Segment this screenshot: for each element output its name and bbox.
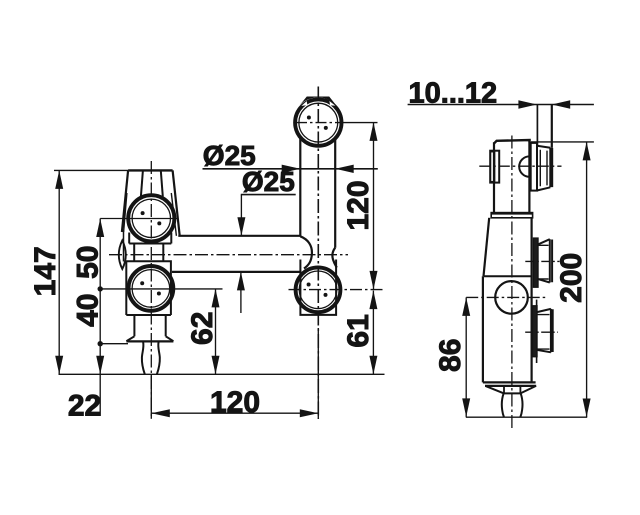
sv bottom flange stub bottom	[536, 357, 538, 363]
port C3 outer ring	[295, 99, 341, 145]
port C2 outer ring	[129, 266, 174, 311]
body right side inner	[171, 193, 176, 236]
port C2 screw dot a	[140, 281, 144, 285]
svg-text:120: 120	[342, 180, 375, 230]
dim 22 arrow bottom	[96, 356, 104, 375]
sv collar top thick	[491, 212, 532, 215]
sv body mid line	[484, 275, 532, 277]
sv nipple	[502, 393, 523, 417]
dim 200 ext top	[531, 141, 594, 143]
junction fillet left bulge	[300, 236, 312, 268]
svg-text:40: 40	[72, 294, 105, 327]
svg-text:50: 50	[72, 246, 105, 279]
dim 61 line	[372, 291, 374, 375]
svg-text:10...12: 10...12	[409, 78, 498, 110]
riser pipe right edge	[334, 138, 336, 248]
svg-text:22: 22	[68, 390, 101, 423]
dim 86 arrow bottom	[462, 398, 470, 417]
body right side outer	[173, 170, 180, 235]
dim 200 arrow top	[583, 142, 591, 161]
lower housing bottom edge	[126, 314, 171, 316]
sv pipe end circle	[495, 281, 528, 314]
outlet nut left	[133, 315, 135, 336]
dim diam25 hpipe arrow bottom	[237, 272, 245, 291]
sv bottom flange stub top	[536, 300, 538, 306]
port C3 cap notch right	[329, 101, 335, 106]
centerline body vertical	[150, 161, 152, 419]
dim diam25 hpipe arrow top	[237, 217, 245, 236]
upper housing left edge	[128, 233, 130, 244]
dim chain 50-40-22 line	[99, 219, 101, 417]
centerline horizontal pipe	[109, 254, 348, 256]
dim 147 arrow bottom	[55, 356, 63, 375]
port C3 screw dot a	[307, 116, 311, 120]
svg-text:120: 120	[210, 386, 260, 419]
port C4 housing	[300, 260, 336, 315]
sv centerline vertical	[511, 136, 513, 431]
sv centerline top port	[479, 165, 561, 167]
dim diam25 riser arrow right	[335, 165, 354, 173]
sv body left slant	[484, 218, 490, 276]
centerline port C1 horizontal	[100, 218, 178, 220]
outlet flare bottom edge	[126, 340, 173, 342]
body bonnet top edge	[128, 169, 173, 171]
sv foot right slant	[520, 386, 536, 394]
sv bottom flange cup face	[551, 309, 553, 352]
dim 120 right arrow top	[370, 122, 378, 140]
port C4 inner circle	[299, 271, 337, 309]
dim chain ext line flare	[100, 343, 128, 345]
outlet flare left chamfer	[126, 336, 134, 341]
dim 120 bottom ext left	[150, 375, 152, 419]
riser pipe left edge	[299, 138, 301, 237]
dim 147 line	[58, 170, 60, 374]
outlet nipple	[142, 342, 160, 374]
horizontal pipe top edge	[178, 235, 300, 237]
sv bottom flange bore lines	[537, 315, 550, 350]
baseline extension bottom	[59, 373, 385, 375]
dim 120 right line	[373, 122, 375, 289]
sv mid flange bore lines	[538, 245, 549, 279]
dim 50 arrow top	[96, 219, 104, 238]
svg-text:86: 86	[434, 339, 467, 372]
sv rear stub outer	[490, 151, 499, 183]
dim diam25 hpipe leader	[240, 195, 242, 236]
port C4 screw dot b	[324, 293, 328, 297]
sv foot left slant	[485, 386, 504, 394]
port C4 outer ring	[296, 267, 341, 312]
sv bottom flange cup outline	[537, 309, 551, 352]
outlet flare right chamfer	[166, 336, 174, 341]
sv neck right edge	[528, 140, 530, 212]
svg-text:61: 61	[342, 314, 375, 347]
outlet nut right	[165, 315, 167, 336]
port C1 screw dot b	[157, 221, 161, 225]
dim 62 arrow bottom	[212, 356, 220, 375]
neck right edge	[162, 244, 164, 262]
port C1 outer ring	[128, 195, 174, 241]
dim 10-12 line	[408, 104, 594, 106]
centerline riser pipe vertical	[317, 87, 319, 420]
sv top flange backplate	[531, 143, 537, 191]
dim 120 bottom arrow left	[151, 409, 170, 417]
dim 120 right arrow bottom	[370, 271, 378, 290]
dim diam25 hpipe arrow bottom tail	[240, 272, 242, 313]
dim chain dot at C2 center	[98, 286, 103, 291]
port C3 inner circle	[299, 103, 338, 142]
dim 62 line	[215, 289, 217, 374]
sv bottom flange backplate	[532, 306, 537, 357]
sv centerline pipe circle	[466, 296, 546, 298]
dim 86 line	[465, 297, 467, 417]
svg-text:Ø25: Ø25	[242, 166, 295, 197]
sv body left edge lower	[482, 276, 484, 382]
dim chain dot at flare bottom	[98, 341, 103, 346]
port C3 screw dot b	[324, 126, 328, 130]
body bonnet left side	[122, 170, 128, 232]
svg-text:200: 200	[555, 253, 588, 303]
sv wall line outer	[551, 105, 553, 148]
dim 10-12 arrow left	[518, 100, 537, 108]
dim 200 arrow bottom	[583, 399, 591, 418]
dim 147 arrow top	[55, 170, 63, 189]
sv top flange cup outline	[537, 146, 550, 191]
port C1 screw dot a	[141, 211, 145, 215]
dim diam25 riser line	[203, 168, 378, 170]
dim 120 right ext top	[342, 122, 378, 124]
sv body bottom plate upper line	[483, 381, 536, 383]
sv top flange cup face	[550, 148, 552, 188]
dim 62 arrow top	[212, 289, 220, 308]
sv mid flange backplate	[533, 238, 538, 287]
sv centerline mid flange	[525, 260, 559, 262]
port C3 cap notch left	[301, 101, 307, 106]
body left edge at side port	[123, 230, 125, 262]
sv body right edge	[530, 218, 532, 383]
port C3 cap	[298, 97, 337, 108]
sv foot stub right edge	[519, 387, 521, 394]
sv mid flange cup face	[550, 239, 552, 282]
dim diam25 riser arrow left	[282, 165, 301, 173]
sv mid flange cup outline	[538, 239, 550, 282]
centerline port C3 horizontal	[296, 122, 341, 124]
dim 147 ext line top	[54, 169, 128, 171]
sv body bottom plate lower line	[485, 385, 536, 387]
junction fillet right s-curve	[332, 248, 336, 268]
valve stem broach right	[161, 170, 163, 196]
sv foot stub left edge	[503, 387, 505, 394]
svg-text:147: 147	[29, 246, 62, 296]
svg-text:62: 62	[186, 312, 219, 345]
dim 10-12 arrow right	[552, 100, 571, 108]
sv wall line inner	[536, 105, 538, 147]
sv rear stub inner	[491, 152, 495, 182]
side port ellipse	[119, 240, 126, 269]
dim 61 arrow bottom	[369, 356, 377, 375]
lower housing outline	[126, 261, 171, 315]
upper housing bottom edge	[129, 243, 171, 245]
body bonnet left inner line	[124, 193, 127, 232]
centerline port C2 horizontal	[100, 288, 222, 290]
sv top flange bore lines	[540, 150, 547, 186]
centerline port C4 horizontal	[289, 289, 383, 291]
dim 86 arrow top	[462, 297, 470, 316]
port C2 screw dot b	[157, 292, 161, 296]
valve stem broach left	[141, 170, 143, 196]
horizontal pipe bottom edge	[172, 271, 302, 273]
sv centerline bottom flange	[525, 331, 558, 333]
upper housing right edge	[170, 233, 172, 244]
port C2 inner circle	[132, 270, 170, 308]
sv top edge	[494, 140, 530, 144]
sv ball arc	[519, 156, 529, 176]
dim 200 line	[586, 142, 588, 417]
dim 61 arrow top	[369, 291, 377, 310]
sv collar	[491, 213, 532, 218]
dim 120 bottom arrow right	[300, 409, 319, 417]
port C4 screw dot a	[307, 283, 311, 287]
dim 120 bottom ext right	[317, 328, 319, 419]
sv baseline	[466, 416, 587, 418]
port C1 inner circle	[132, 199, 170, 237]
dim 120 bottom line	[151, 412, 318, 414]
dim diam25 hpipe underline	[241, 194, 296, 196]
sv neck left edge	[493, 142, 495, 212]
neck left edge	[133, 244, 135, 262]
